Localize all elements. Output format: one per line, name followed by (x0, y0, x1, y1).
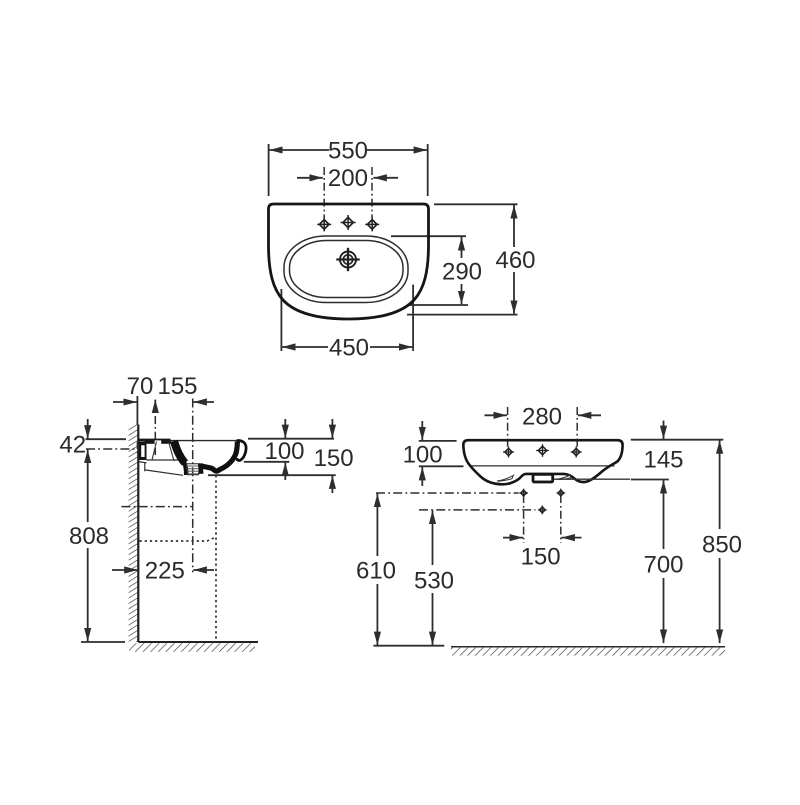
svg-text:808: 808 (69, 523, 109, 550)
svg-text:850: 850 (702, 532, 742, 559)
svg-text:700: 700 (643, 551, 683, 578)
svg-text:550: 550 (328, 138, 368, 165)
svg-text:42: 42 (59, 432, 86, 459)
svg-text:100: 100 (403, 442, 443, 469)
svg-text:610: 610 (356, 558, 396, 585)
svg-text:280: 280 (522, 403, 562, 430)
svg-text:145: 145 (643, 446, 683, 473)
svg-text:290: 290 (442, 259, 482, 286)
svg-text:155: 155 (157, 373, 197, 400)
svg-text:530: 530 (414, 567, 454, 594)
svg-text:225: 225 (145, 558, 185, 585)
svg-text:70: 70 (127, 373, 154, 400)
svg-text:200: 200 (328, 165, 368, 192)
svg-text:460: 460 (495, 247, 535, 274)
svg-text:100: 100 (264, 438, 304, 465)
svg-text:150: 150 (521, 544, 561, 571)
svg-text:450: 450 (329, 335, 369, 362)
svg-text:150: 150 (314, 445, 354, 472)
